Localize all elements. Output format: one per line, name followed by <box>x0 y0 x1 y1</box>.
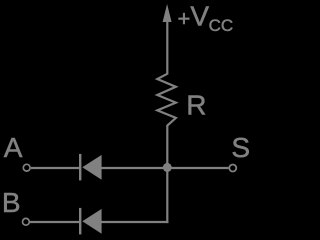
terminal S <box>229 165 236 172</box>
resistor R <box>157 74 176 126</box>
wire A to diode D1 <box>31 167 80 169</box>
wire B to diode D2 <box>30 221 80 223</box>
wire arrow to resistor <box>166 20 168 75</box>
node junction <box>162 162 172 172</box>
svg-text:V: V <box>190 0 209 31</box>
svg-text:CC: CC <box>209 16 234 35</box>
svg-text:A: A <box>4 132 23 163</box>
diode D2 <box>79 208 102 235</box>
power supply arrow +VCC <box>163 4 172 22</box>
diode D1 <box>79 154 102 181</box>
wire node to terminal S <box>167 167 228 169</box>
wire diode D1 to node <box>102 167 168 169</box>
wire diode D2 to node horizontal <box>102 221 169 223</box>
wire diode D2 to node vertical <box>166 168 168 224</box>
svg-text:B: B <box>2 187 21 218</box>
svg-text:S: S <box>231 132 250 163</box>
terminal B <box>23 218 30 225</box>
terminal A <box>23 164 30 171</box>
svg-text:R: R <box>186 89 206 120</box>
svg-text:+: + <box>178 6 191 31</box>
wire resistor to node <box>166 125 168 168</box>
